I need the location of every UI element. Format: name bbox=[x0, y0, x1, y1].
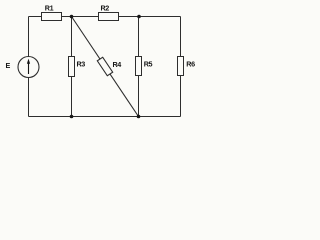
svg-text:R1: R1 bbox=[45, 4, 54, 13]
svg-text:R3: R3 bbox=[77, 60, 86, 69]
svg-text:R2: R2 bbox=[101, 4, 110, 13]
svg-text:R5: R5 bbox=[144, 60, 153, 69]
svg-text:E: E bbox=[6, 61, 11, 70]
svg-text:R4: R4 bbox=[113, 60, 122, 69]
svg-text:R6: R6 bbox=[186, 59, 195, 68]
